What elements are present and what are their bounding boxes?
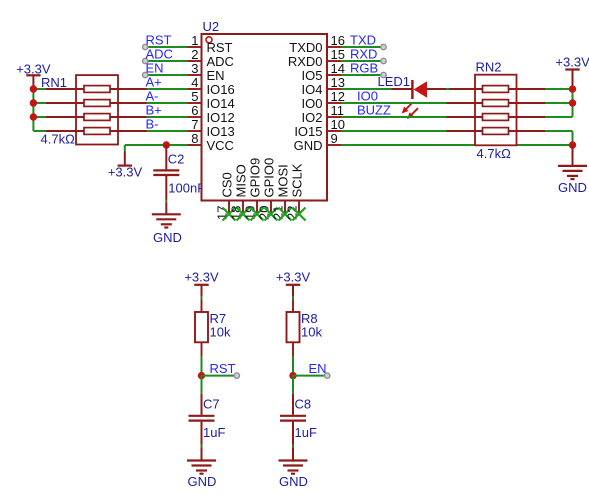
value 10k (R7) [210,324,231,339]
wire: left rail vertical [32,86,34,131]
value label 4.7kΩ (RN2) [477,146,512,161]
svg-text:C7: C7 [203,397,220,412]
U2 pin 22 (SCLK) [285,163,305,220]
wire/net stub RGB (U2 right) [341,72,386,77]
resistor network RN2 box [475,75,517,146]
ground symbol (C8) [279,461,308,489]
wire: +3.3V to R8 [292,296,294,300]
wire: rail to RN1 pin 2 [33,102,46,104]
svg-text:RN1: RN1 [41,75,67,90]
svg-text:16: 16 [331,33,345,48]
wire: U2 pin to RN2 row y=103 [341,102,447,104]
svg-text:A-: A- [146,88,159,103]
U2 pin 19 (GPIO9) [243,158,263,220]
label C2 [168,152,185,167]
svg-text:GND: GND [294,138,323,153]
U2 pin 2 (ADC) [188,47,234,69]
wire: U2 pin 9 (GND net) to right rail [341,144,573,146]
svg-text:U2: U2 [203,19,220,34]
svg-text:GND: GND [153,230,182,245]
svg-text:B-: B- [146,116,159,131]
U2 pin 14 (IO5) [302,61,345,83]
net label RXD [350,46,377,61]
U2 pin 11 (IO2) [302,103,344,125]
no-connect X on pin 18 [237,208,250,221]
svg-text:6: 6 [191,103,198,118]
label R8 [301,311,318,326]
U2 pin 17 (CS0) [215,172,235,220]
svg-text:8: 8 [191,131,198,146]
label RN1 [41,75,67,90]
svg-text:+3.3V: +3.3V [184,270,219,285]
net label EN [146,60,164,75]
net label A- [146,88,159,103]
net label IO0 [357,88,378,103]
svg-text:ADC: ADC [207,54,234,69]
label C7 [203,397,220,412]
wire/net stub TXD (U2 right) [341,44,386,49]
wire: right rail vertical [572,85,574,117]
svg-text:EN: EN [146,60,164,75]
svg-text:RGB: RGB [350,60,378,75]
power flag +3.3V (below RN1, feeds VCC) [108,145,143,180]
wire: U2 pin to RN2 row y=117 [341,116,447,118]
svg-text:RST: RST [146,32,172,47]
wire: R8 to node EN [292,356,294,376]
LED1 emission arrows [402,103,418,120]
svg-text:EN: EN [207,68,225,83]
label LED1 [378,74,411,89]
power flag +3.3V (left of RN1) [16,61,51,86]
wire: U2 pin 13 to LED1 [341,88,392,90]
svg-text:4.7kΩ: 4.7kΩ [41,132,76,147]
no-connect X on pin 22 [293,208,306,221]
wire/net stub EN [293,373,330,378]
pin 1 indicator circle [206,37,212,43]
svg-text:+3.3V: +3.3V [276,270,311,285]
U2 pin 21 (MOSI) [271,164,291,220]
svg-text:15: 15 [331,47,345,62]
wire: RN2 to right rail y=131 [545,130,573,132]
U2 pin 1 (RST) [188,33,233,55]
no-connect X on pin 20 [265,208,278,221]
U2 pin 9 (GND) [294,131,341,153]
ground symbol (C7) [187,461,216,489]
svg-text:B+: B+ [146,102,162,117]
value 10k (R8) [301,324,322,339]
wire: RN2 to right rail y=103 [545,102,573,104]
svg-text:VCC: VCC [207,138,234,153]
wire: LED1 to RN2 (green tick) [446,88,450,90]
value label 4.7kΩ (RN1) [41,132,76,147]
U2 pin 5 (IO14) [188,89,235,111]
svg-text:RXD0: RXD0 [288,54,323,69]
power flag +3.3V (R7) [184,270,219,296]
net label RST [210,361,236,376]
svg-text:+3.3V: +3.3V [555,55,589,70]
U2 pin 7 (IO13) [188,117,235,139]
svg-text:7: 7 [191,117,198,132]
wire/net stub RST (U2 left) [143,44,188,49]
svg-text:GND: GND [188,474,217,489]
wire: RN1 to U2 pin 5 [147,102,188,104]
op IC U2 body [202,34,328,201]
resistor R7 [195,300,208,357]
wire: RN1 to U2 pin 7 [147,130,188,132]
svg-text:IO14: IO14 [207,96,235,111]
LED LED1 [392,80,447,99]
RN2 resistor element 3 [447,114,546,121]
wire: node RST to C7 [201,376,203,394]
net label EN [309,361,327,376]
net label ADC [146,46,173,61]
U2 pin 16 (TXD0) [289,33,345,55]
no-connect X on pin 21 [279,208,292,221]
net label BUZZ [357,102,391,117]
svg-text:IO2: IO2 [302,110,323,125]
capacitor C7 [189,394,215,461]
value 1uF (C7) [203,425,225,440]
svg-text:+3.3V: +3.3V [108,165,143,180]
svg-text:IO0: IO0 [302,96,323,111]
wire/net stub ADC (U2 left) [143,58,188,63]
resistor R8 [287,300,300,357]
net label RGB [350,60,378,75]
svg-text:IO16: IO16 [207,82,235,97]
wire/net stub RST [202,373,240,378]
wire: RN1 to U2 pin 6 [147,116,188,118]
svg-text:GND: GND [279,474,308,489]
label U2 [203,19,220,34]
ground symbol (right rail) [558,145,587,195]
wire: rail to RN1 pin 4 [33,130,46,132]
wire: U2 pin to RN2 row y=131 [341,130,447,132]
wire: +3.3V to R7 [201,296,203,300]
svg-text:14: 14 [331,61,345,76]
wire: RN2 row4 down to GND net [572,131,574,145]
svg-text:12: 12 [331,89,345,104]
value 1uF (C8) [295,425,317,440]
wire/net stub EN (U2 left) [143,72,188,77]
label RN2 [476,60,502,75]
U2 pin 20 (GPIO0) [257,158,277,220]
svg-text:9: 9 [331,131,338,146]
RN1 resistor element 4 [46,128,147,135]
svg-text:10: 10 [331,117,345,132]
svg-text:BUZZ: BUZZ [357,102,391,117]
svg-text:1uF: 1uF [295,425,317,440]
svg-text:EN: EN [309,361,327,376]
svg-text:GPIO0: GPIO0 [261,158,276,198]
U2 pin 18 (MISO) [229,164,249,220]
svg-text:4: 4 [191,75,198,90]
junction node (C2 tap) [163,141,170,148]
wire: RN2 to right rail y=89 [545,88,573,90]
svg-text:1: 1 [191,33,198,48]
junction node RST [198,372,205,379]
svg-text:3: 3 [191,61,198,76]
wire: rail to RN1 pin 1 [33,88,46,90]
svg-text:13: 13 [331,75,345,90]
junction dots on left rail [30,85,37,120]
U2 pin 13 (IO4) [302,75,345,97]
net label RST [146,32,172,47]
svg-text:IO13: IO13 [207,124,235,139]
U2 pin 4 (IO16) [188,75,235,97]
svg-text:1uF: 1uF [203,425,225,440]
capacitor C2 [153,145,179,214]
svg-text:IO12: IO12 [207,110,235,125]
label C8 [295,397,312,412]
value 100nF [168,181,205,196]
U2 pin 12 (IO0) [302,89,345,111]
wire: node EN to C8 [292,376,294,394]
RN2 resistor element 1 [450,86,546,93]
U2 pin 8 (VCC) [188,131,234,153]
U2 pin 3 (EN) [188,61,225,83]
RN1 resistor element 2 [46,100,147,107]
wire: RN1 to U2 pin 4 [147,88,188,90]
svg-text:TXD0: TXD0 [289,40,322,55]
svg-text:IO0: IO0 [357,88,378,103]
svg-text:RXD: RXD [350,46,377,61]
svg-text:10k: 10k [301,324,322,339]
svg-text:GND: GND [558,180,587,195]
net label TXD [350,32,376,47]
wire: +3.3V to U2 pin 8 (VCC) [125,144,188,146]
svg-text:IO5: IO5 [302,68,323,83]
wire: R7 to node RST [201,356,203,376]
ground symbol (C2) [152,214,182,245]
U2 pin 10 (IO15) [294,117,345,139]
svg-text:GPIO9: GPIO9 [247,158,262,198]
svg-text:100nF: 100nF [168,181,205,196]
svg-text:2: 2 [191,47,198,62]
svg-text:IO4: IO4 [302,82,323,97]
net label A+ [146,74,162,89]
RN2 resistor element 2 [447,100,546,107]
wire/net stub RXD (U2 right) [341,58,386,63]
svg-text:RST: RST [207,40,233,55]
junction node EN [289,372,296,379]
svg-text:RN2: RN2 [476,60,502,75]
svg-text:11: 11 [331,103,345,118]
no-connect X on pin 17 [223,208,236,221]
net label B+ [146,102,162,117]
wire: rail to RN1 pin 3 [33,116,46,118]
RN1 resistor element 3 [46,114,147,121]
svg-text:10k: 10k [210,324,231,339]
svg-text:RST: RST [210,361,236,376]
RN2 resistor element 4 [447,128,546,135]
svg-text:C2: C2 [168,152,185,167]
U2 pin 6 (IO12) [188,103,235,125]
capacitor C8 [280,394,306,461]
net label B- [146,116,159,131]
svg-text:SCLK: SCLK [289,163,304,197]
svg-text:4.7kΩ: 4.7kΩ [477,146,512,161]
svg-text:MOSI: MOSI [275,164,290,197]
svg-text:MISO: MISO [233,164,248,197]
svg-text:C8: C8 [295,397,312,412]
junction dots on right rail [569,85,576,106]
svg-text:CS0: CS0 [219,172,234,197]
svg-text:LED1: LED1 [378,74,411,89]
svg-text:TXD: TXD [350,32,376,47]
RN1 resistor element 1 [46,86,147,93]
svg-text:ADC: ADC [146,46,173,61]
label R7 [210,311,227,326]
no-connect X on pin 19 [251,208,264,221]
power flag +3.3V (R8) [276,270,311,296]
wire: RN2 to right rail y=117 [545,116,573,118]
junction node (GND net) [569,141,576,148]
power flag +3.3V (right) [555,55,589,86]
svg-text:5: 5 [191,89,198,104]
svg-text:IO15: IO15 [294,124,322,139]
U2 pin 15 (RXD0) [288,47,345,69]
resistor network RN1 box [76,75,118,144]
svg-text:A+: A+ [146,74,162,89]
